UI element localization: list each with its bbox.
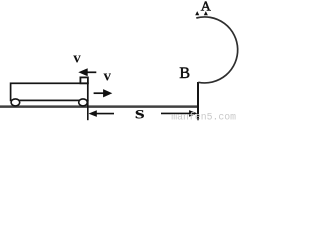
block on cart (80, 77, 88, 83)
curved track (D-shaped arc) (196, 17, 237, 83)
svg-text:v: v (73, 51, 81, 67)
left wheel (11, 99, 20, 106)
distance arrow left segment (pointing left) (89, 110, 115, 117)
svg-text:manfen5.com: manfen5.com (171, 111, 236, 122)
marker triangle below A (204, 11, 208, 15)
velocity arrow v (block, pointing left) (78, 68, 96, 76)
wall (197, 82, 199, 120)
svg-text:s: s (135, 102, 145, 122)
tick line below cart right edge (87, 100, 89, 120)
right wheel (79, 99, 88, 106)
marker triangle at arc end (195, 11, 199, 15)
distance arrow right segment (pointing right) (161, 110, 197, 117)
svg-text:v: v (104, 69, 112, 85)
label s (135, 102, 145, 123)
ground (0, 105, 199, 108)
velocity arrow v (cart, pointing right) (94, 89, 113, 97)
cart body (11, 83, 88, 100)
svg-text:B: B (179, 65, 190, 82)
